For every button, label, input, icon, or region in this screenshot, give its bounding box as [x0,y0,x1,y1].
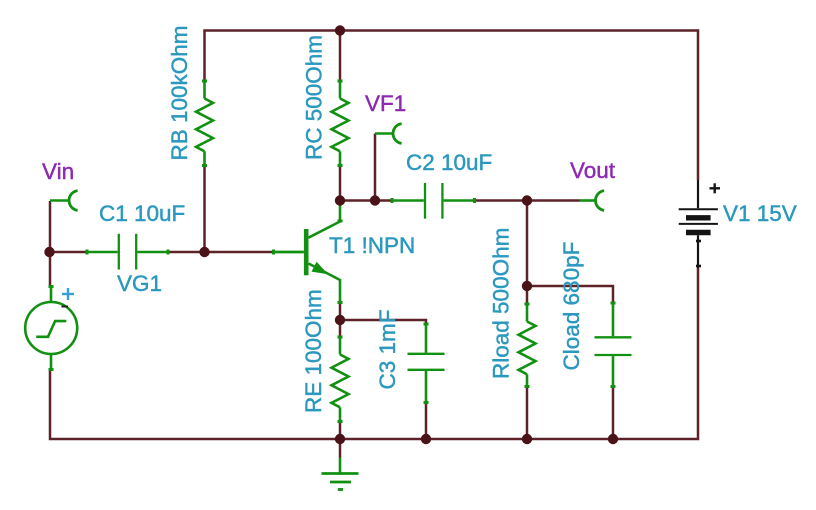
wire Vout node down to load node [526,201,529,287]
node dot emitter [335,315,345,325]
wire RB bottom to base node [203,166,206,253]
svg-text:RE 100Ohm: RE 100Ohm [301,289,326,413]
svg-text:Cload 680pF: Cload 680pF [559,242,584,371]
svg-text:C3 1mF: C3 1mF [375,309,400,389]
wire C1 left lead [50,251,88,254]
svg-text:Vout: Vout [570,158,616,183]
wire VF1 drop [374,134,377,201]
wire emitter node to C3 [340,320,426,324]
capacitor Cload [595,303,632,387]
capacitor C1 [87,234,168,270]
wire RC top [339,31,342,82]
wire load node to Cload [527,286,613,303]
wire emitter node to RE [339,320,342,337]
resistor RB [196,81,213,166]
resistor RE [332,337,349,422]
node dot Vout [522,195,532,205]
svg-text:RC 500Ohm: RC 500Ohm [302,35,327,160]
wire ground stub [339,439,342,458]
VG1 plus sign [62,288,74,300]
node dot ground rail [335,434,345,444]
wire collector node to C2 [340,199,392,202]
wire Vin drop [49,201,52,252]
node dot VF1 [370,195,380,205]
wire C2 to Vout node [475,199,580,202]
node dot Vin/C1 [44,247,54,257]
pin VF1 [375,124,402,144]
wire load node to Rload [526,286,529,304]
wire emitter pin to emitter node [339,303,342,321]
battery plus sign [710,183,721,193]
battery V1 [679,180,718,268]
wire Cload bottom to rail [612,387,615,440]
svg-text:C2 10uF: C2 10uF [406,150,492,175]
svg-text:Vin: Vin [42,159,74,184]
wire base node to transistor [205,251,273,254]
svg-text:RB 100kOhm: RB 100kOhm [167,25,192,160]
wire top rail from RB top across to battery [205,31,699,181]
svg-text:Rload 500Ohm: Rload 500Ohm [489,228,514,379]
resistor RC [332,81,349,166]
wire node to VG1 top [49,252,52,287]
node dot base [199,247,209,257]
wire bottom rail [50,268,698,439]
node dot load [522,281,532,291]
capacitor C2 [392,183,475,219]
node dot top rail RC [335,25,345,35]
source VG1 [25,287,77,370]
node dot collector [335,195,345,205]
VG1 top-right small dark tick [62,306,69,308]
wire Rload bottom to rail [526,387,529,440]
svg-text:C1 10uF: C1 10uF [99,201,185,226]
pin Vin [50,191,78,211]
ground [322,458,359,490]
svg-text:T1 !NPN: T1 !NPN [329,233,415,258]
node dot Cload rail [608,434,618,444]
svg-text:VG1: VG1 [117,271,162,296]
node dot Rload rail [522,434,532,444]
wire C3 bottom to rail [425,403,428,440]
resistor Rload [519,304,536,387]
wire C1 right to base node [168,251,205,254]
capacitor C3 [408,324,445,403]
svg-text:V1 15V: V1 15V [723,201,797,226]
node dot C3 rail [421,434,431,444]
wire RC bottom to collector node [339,166,342,201]
svg-text:VF1: VF1 [365,91,406,116]
pin Vout [580,191,605,211]
transistor Q1 T1 [273,201,343,303]
wire RE bottom to rail [339,422,342,440]
